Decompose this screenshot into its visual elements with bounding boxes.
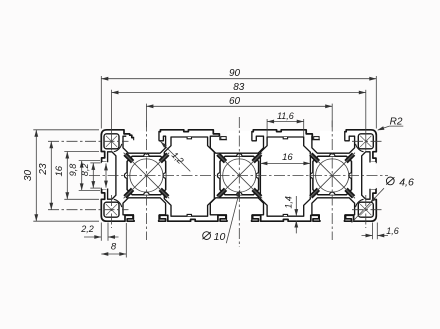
dimension 8,2 left [80, 163, 100, 188]
svg-text:8: 8 [111, 241, 117, 252]
screw hole top-left [104, 134, 122, 152]
thickness 1,2 leader [161, 142, 191, 172]
dimension 60 top [146, 96, 332, 127]
vertical centerline hole bottom-left [111, 195, 113, 228]
screw hole top-right [356, 134, 374, 152]
dimension 8 bottom-left [101, 223, 126, 258]
svg-text:1,6: 1,6 [386, 226, 399, 236]
svg-text:8,2: 8,2 [80, 164, 90, 177]
dimension 11,6 top [267, 111, 304, 137]
svg-text:9,8: 9,8 [68, 164, 78, 177]
diameter 10 leader [203, 190, 241, 243]
svg-text:11,6: 11,6 [277, 111, 294, 121]
radius R2 leader [377, 117, 403, 131]
wide cavity left [164, 137, 214, 216]
svg-text:1,4: 1,4 [283, 196, 293, 209]
dimension 1,4 wall [283, 196, 298, 233]
centerline hole row bottom-right [352, 209, 383, 211]
svg-text:16: 16 [54, 165, 65, 176]
centerline hole row top-left [48, 140, 129, 142]
dimension 16 inside cavity [260, 152, 310, 165]
vertical centerline tube 1 [145, 121, 147, 241]
svg-text:2,2: 2,2 [80, 224, 94, 234]
screw hole bottom-left [104, 199, 122, 217]
lip cover-groove pockets [221, 137, 319, 140]
dimension 90 top [101, 68, 376, 128]
tube cavity 1 with circle [124, 153, 170, 199]
tube cavity 3 with circle [309, 153, 355, 199]
dimension 83 top [112, 82, 366, 151]
wide cavity right [260, 137, 310, 216]
main horizontal centerline [89, 175, 388, 177]
profile outer outline [101, 130, 376, 221]
right end-face chamber [362, 152, 376, 199]
mouth measure arrows left end [104, 163, 108, 187]
centerline hole row bottom-left [48, 209, 129, 211]
tube cavity 2 with circle [217, 153, 263, 199]
bottom T-slot chamber 3 [312, 198, 355, 220]
svg-text:10: 10 [214, 231, 226, 243]
dimension 16 left [54, 152, 99, 200]
bottom T-slot chamber 1 [123, 198, 166, 220]
svg-text:60: 60 [229, 96, 241, 107]
svg-text:30: 30 [23, 170, 34, 182]
vertical centerline hole bottom-right [365, 195, 367, 228]
top T-slot chamber 3 [312, 131, 355, 153]
svg-text:90: 90 [229, 68, 241, 79]
svg-text:23: 23 [38, 163, 49, 176]
dimension 9,8 left [68, 161, 100, 191]
screw hole bottom-right [356, 199, 374, 217]
svg-text:16: 16 [282, 152, 293, 163]
dimension 2,2 bottom-left [80, 223, 118, 241]
vertical centerline tube 2 [238, 117, 240, 247]
left end-face chamber [102, 152, 116, 199]
vertical centerline tube 3 [331, 121, 333, 241]
dimension 30 left [23, 130, 99, 221]
centerline hole row top-right [352, 140, 383, 142]
dimension 1,6 bottom-right [362, 223, 399, 240]
top T-slot chamber 2 [210, 131, 263, 153]
dimension 23 left [38, 141, 53, 209]
svg-text:4,6: 4,6 [399, 176, 414, 188]
top T-slot chamber 1 [123, 131, 166, 153]
bottom T-slot chamber 2 [210, 198, 263, 220]
svg-text:83: 83 [233, 82, 245, 93]
svg-text:R2: R2 [390, 117, 403, 128]
diameter 4,6 leader [352, 176, 414, 222]
